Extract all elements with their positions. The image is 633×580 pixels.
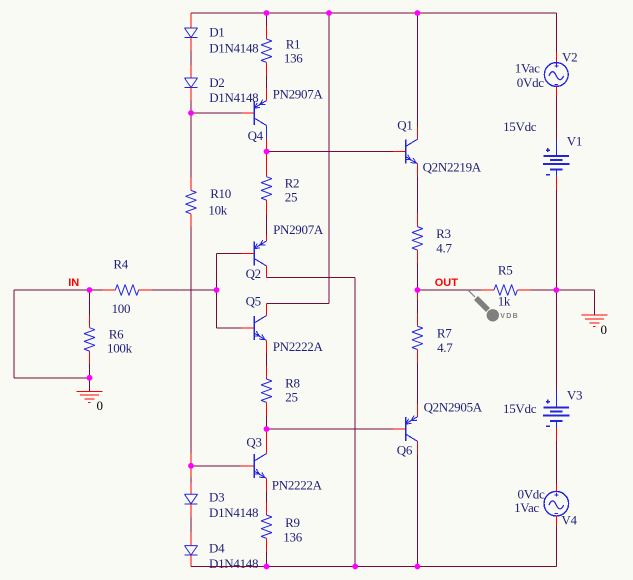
wire Q2 collector down: [266, 266, 268, 277]
svg-text:Q4: Q4: [248, 128, 264, 143]
svg-text:15Vdc: 15Vdc: [503, 119, 537, 134]
node dot OUT: [415, 287, 421, 293]
svg-text:D4: D4: [209, 541, 225, 556]
top supply rail wire: [191, 12, 556, 14]
wire V4 to bottom rail: [555, 516, 557, 526]
wire node to Q6 base: [267, 428, 393, 430]
wire R4 to base-link node: [139, 289, 153, 291]
wire R10 to Q3 base node: [190, 214, 192, 227]
node dot R4 / base link: [214, 287, 220, 293]
wire IN to R6: [89, 290, 91, 315]
resistor R6: [84, 328, 95, 351]
node dot bottom rail / R9: [264, 564, 270, 570]
diode D3: [185, 494, 198, 504]
node dot bottom rail / Q6 collector: [415, 564, 421, 570]
resistor R10: [186, 190, 197, 213]
svg-text:R3: R3: [436, 226, 451, 241]
node dot R5 / supply rail: [553, 287, 559, 293]
svg-text:D3: D3: [209, 490, 224, 505]
wire R7 to Q6 emitter: [416, 350, 418, 363]
svg-text:V4: V4: [561, 513, 577, 528]
wire base link vertical: [216, 254, 218, 329]
source V3 15Vdc (battery): [555, 392, 557, 408]
node dot IN: [87, 287, 93, 293]
svg-text:V2: V2: [562, 50, 577, 65]
svg-text:R5: R5: [498, 263, 513, 278]
ground 0 (output): [582, 314, 608, 316]
svg-text:Q3: Q3: [246, 434, 261, 449]
wire V2 to V1: [555, 86, 557, 96]
transistor Q6 Q2N2905A (PNP): [405, 417, 407, 441]
wire IN to R4: [90, 289, 103, 291]
wire node to Q1 base: [267, 151, 393, 153]
svg-text:PN2907A: PN2907A: [273, 222, 324, 237]
svg-text:VDB: VDB: [500, 313, 519, 320]
svg-text:136: 136: [283, 529, 302, 544]
wire R1 to Q4 emitter: [266, 62, 268, 75]
svg-text:4.7: 4.7: [436, 240, 452, 255]
svg-text:R4: R4: [113, 257, 128, 272]
svg-text:0: 0: [601, 322, 607, 337]
resistor R8: [261, 379, 272, 402]
wire Q5 collector row: [267, 303, 330, 305]
wire R2 to Q2 emitter: [266, 200, 268, 215]
svg-text:IN: IN: [68, 277, 79, 289]
bottom supply rail wire: [191, 566, 556, 568]
svg-text:PN2222A: PN2222A: [272, 477, 323, 492]
svg-text:R1: R1: [286, 36, 301, 51]
svg-text:25: 25: [285, 390, 297, 405]
svg-text:100k: 100k: [107, 341, 133, 356]
wire Q2 collector to x355 column: [267, 276, 356, 278]
wire R9 to bottom rail: [266, 538, 268, 551]
svg-text:Q2N2905A: Q2N2905A: [424, 400, 483, 415]
wire R5 to rail node: [517, 289, 530, 291]
wire rail to V2: [555, 13, 557, 53]
svg-text:100: 100: [112, 301, 131, 316]
wire node to Q3 collector: [266, 429, 268, 454]
svg-text:V1: V1: [567, 134, 582, 149]
wire R8 to Q6-base node: [266, 402, 268, 415]
wire Q4 base: [191, 112, 242, 114]
svg-text:0: 0: [97, 398, 103, 413]
svg-text:D1N4148: D1N4148: [209, 556, 258, 571]
svg-text:25: 25: [285, 190, 297, 205]
svg-text:15Vdc: 15Vdc: [503, 401, 537, 416]
wire rail to R1: [266, 13, 268, 26]
source V4 0Vdc/1Vac (AC): [544, 491, 569, 516]
svg-text:D1N4148: D1N4148: [209, 40, 258, 55]
svg-text:Q6: Q6: [397, 443, 413, 458]
source V2 1Vac/0Vdc (AC): [544, 63, 568, 87]
wire node to D3: [190, 466, 192, 477]
resistor R7: [412, 326, 423, 349]
wire x355 column down to bottom rail: [354, 277, 356, 566]
wire rail to Q1 collector: [416, 13, 418, 126]
transistor Q5 PN2222A (NPN): [253, 316, 255, 340]
wire OUT to R5: [417, 289, 481, 291]
svg-text:Q2N2219A: Q2N2219A: [423, 160, 482, 175]
svg-text:R7: R7: [437, 326, 452, 341]
wire D1-D2 segment: [190, 38, 192, 51]
node dot bottom rail / x355: [352, 564, 358, 570]
svg-text:D1N4148: D1N4148: [209, 505, 258, 520]
svg-text:Q1: Q1: [397, 118, 412, 133]
wire mid node to V3: [555, 290, 557, 392]
svg-text:R2: R2: [285, 176, 300, 191]
wire R6 to ground node: [89, 351, 91, 364]
svg-text:Q5: Q5: [246, 294, 261, 309]
wire D2 cathode to node: [190, 88, 192, 101]
node dot ground node: [87, 375, 93, 381]
resistor R3: [412, 227, 423, 250]
source V1 15Vdc (battery): [555, 140, 557, 156]
diode D2: [185, 78, 198, 88]
node dot Q4 base node: [188, 110, 194, 116]
svg-text:1Vac: 1Vac: [514, 500, 539, 515]
resistor R9: [261, 515, 272, 538]
wire V3 to V4: [555, 428, 557, 441]
transistor Q3 PN2222A (NPN): [253, 454, 255, 478]
wire D4 cathode to bottom rail: [190, 555, 192, 566]
wire Q3 emitter to R9: [266, 479, 268, 492]
svg-text:4.7: 4.7: [437, 340, 453, 355]
wire R3 to OUT node: [416, 250, 418, 263]
wire x330 column top rail down to Q5 collector: [328, 13, 330, 304]
wire Q4 collector to node: [266, 126, 268, 139]
svg-text:136: 136: [284, 51, 303, 66]
diode D1: [185, 28, 198, 38]
svg-text:D1: D1: [209, 25, 224, 40]
wire Q1 emitter to R3: [416, 164, 418, 177]
wire IN loop left: [14, 289, 89, 291]
transistor Q4 PN2907A (PNP): [253, 101, 255, 125]
svg-text:Q2: Q2: [246, 266, 261, 281]
svg-text:PN2222A: PN2222A: [273, 339, 324, 354]
ground 0 (input): [89, 378, 91, 392]
node dot Q4 collector / Q1 base node: [264, 149, 270, 155]
wire link to Q5 base: [217, 327, 242, 329]
resistor R5: [494, 285, 517, 296]
wire node to R2: [266, 152, 268, 177]
resistor R2: [261, 177, 272, 200]
wire Q5 collector pin: [266, 304, 268, 316]
node dot top rail / x330 column: [326, 10, 332, 16]
wire node to R10: [190, 113, 192, 177]
svg-text:0Vdc: 0Vdc: [517, 75, 544, 90]
wire Q3 base: [191, 465, 240, 467]
wire D3-D4 segment: [190, 504, 192, 517]
svg-text:PN2907A: PN2907A: [273, 86, 324, 101]
resistor R4: [115, 285, 138, 296]
svg-text:R10: R10: [210, 186, 231, 201]
svg-text:10k: 10k: [208, 202, 227, 217]
svg-text:R6: R6: [109, 326, 124, 341]
transistor Q2 PN2907A (PNP): [253, 242, 255, 266]
svg-text:R9: R9: [285, 515, 300, 530]
svg-text:D2: D2: [209, 75, 224, 90]
diode D4: [185, 546, 198, 556]
node dot R8 / Q3 collector / Q6 base node: [264, 426, 270, 432]
node dot top rail / R1 column: [264, 10, 270, 16]
svg-text:R8: R8: [285, 376, 300, 391]
svg-text:D1N4148: D1N4148: [209, 90, 258, 105]
svg-text:1Vac: 1Vac: [515, 61, 540, 76]
svg-text:V3: V3: [567, 387, 582, 402]
transistor Q1 Q2N2219A (NPN): [405, 140, 407, 164]
wire link to Q2 base: [217, 253, 242, 255]
svg-text:OUT: OUT: [435, 277, 459, 289]
probe VDB marker: [469, 291, 475, 297]
wire Q5 emitter to R8: [266, 341, 268, 354]
resistor R1: [261, 39, 272, 62]
node dot top rail / Q1 collector column: [415, 10, 421, 16]
wire to ground (right): [556, 289, 594, 291]
wire V1 to mid node: [555, 177, 557, 190]
wire Q6 collector to bottom rail: [416, 442, 418, 455]
node dot Q3 base node: [188, 463, 194, 469]
wire OUT to R7: [416, 290, 418, 300]
svg-text:1k: 1k: [498, 293, 511, 308]
wire D1 anode pin: [190, 13, 192, 28]
